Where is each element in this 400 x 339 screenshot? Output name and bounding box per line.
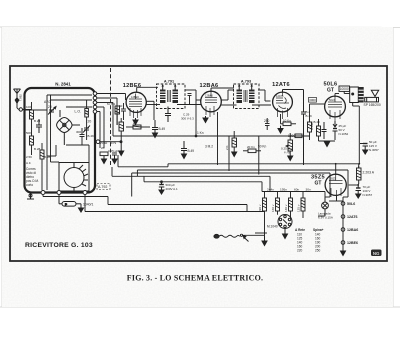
screen cap C.29 bbox=[165, 107, 171, 123]
AVC cap B.49 bbox=[181, 141, 187, 154]
oscillator coil box bbox=[59, 163, 89, 192]
svg-text:N.1052: N.1052 bbox=[339, 132, 349, 136]
50L6 cathode resistor bbox=[317, 119, 321, 141]
svg-text:M.751: M.751 bbox=[107, 102, 116, 106]
svg-text:corto: corto bbox=[26, 183, 33, 187]
svg-text:N. 2841: N. 2841 bbox=[55, 82, 71, 87]
wire screen bus bbox=[137, 170, 348, 176]
tube V1 12BE6 bbox=[123, 83, 147, 118]
wire cathode return bus bbox=[112, 167, 270, 192]
filter cap 50uF bbox=[360, 144, 368, 151]
section divider dash line bbox=[110, 68, 112, 167]
IFT lower connection wires bbox=[146, 104, 271, 107]
resistor in box lower bbox=[30, 128, 34, 155]
svg-text:50K: 50K bbox=[26, 131, 31, 135]
svg-text:B.28: B.28 bbox=[34, 119, 41, 123]
svg-text:30n: 30n bbox=[306, 187, 311, 191]
svg-text:2.5K: 2.5K bbox=[26, 155, 32, 159]
terminal circle phono input bbox=[96, 140, 100, 144]
svg-text:B/79: B/79 bbox=[110, 141, 117, 145]
grid cap 12BA6 bbox=[188, 94, 192, 105]
svg-text:B.49: B.49 bbox=[188, 149, 195, 153]
svg-text:12BE6: 12BE6 bbox=[347, 241, 358, 245]
heater chain bus bbox=[341, 197, 345, 251]
wire terminals to V1 grid bbox=[97, 94, 126, 149]
arrow on selector bbox=[243, 235, 249, 241]
voltage table bbox=[295, 228, 324, 253]
junction node B+ bbox=[358, 163, 360, 165]
svg-text:50L6: 50L6 bbox=[329, 98, 335, 102]
resistor mid column bbox=[40, 143, 44, 165]
IF transformer T2 A.793 bbox=[234, 80, 260, 109]
tube V2 12BA6 bbox=[200, 83, 222, 117]
right column trimmer bbox=[83, 126, 90, 141]
svg-text:B.49: B.49 bbox=[159, 127, 166, 131]
NG stamp bbox=[371, 250, 382, 257]
svg-text:¼ W: ¼ W bbox=[284, 151, 290, 155]
schematic frame (border of schematic) bbox=[10, 66, 387, 261]
ballast M.1040 bbox=[278, 215, 292, 229]
decoupling cap B.49 under IFT1 bbox=[152, 120, 158, 133]
primary impedance label 10000 bbox=[339, 86, 350, 91]
svg-text:50L6: 50L6 bbox=[347, 202, 355, 206]
svg-text:T.992: T.992 bbox=[19, 94, 23, 101]
svg-text:125 v: 125 v bbox=[297, 204, 301, 212]
svg-text:0.05 µF: 0.05 µF bbox=[108, 149, 118, 153]
right column resistor in box bbox=[85, 100, 89, 128]
svg-text:10 Kn: 10 Kn bbox=[283, 118, 291, 122]
svg-text:SP 165/200: SP 165/200 bbox=[364, 103, 381, 107]
heater labels bbox=[347, 202, 358, 245]
svg-text:100: 100 bbox=[26, 105, 31, 109]
svg-text:10000: 10000 bbox=[340, 87, 349, 91]
svg-text:195n: 195n bbox=[280, 187, 287, 191]
svg-text:FIG. 3. - LO SCHEMA ELETTRICO.: FIG. 3. - LO SCHEMA ELETTRICO. bbox=[127, 274, 263, 283]
filter cap 500uF mid bbox=[159, 182, 165, 190]
cathode components small bbox=[100, 152, 117, 156]
svg-text:50: 50 bbox=[119, 104, 123, 108]
tap resistor network bbox=[262, 192, 325, 236]
svg-text:A.792: A.792 bbox=[98, 185, 107, 189]
svg-text:200V A.1: 200V A.1 bbox=[166, 187, 179, 191]
trimmer cap symbol bbox=[48, 107, 56, 115]
svg-text:700Ω: 700Ω bbox=[100, 141, 108, 145]
V1 side wires bbox=[147, 101, 154, 120]
capacitor pair in box bbox=[36, 119, 42, 133]
svg-text:B.49: B.49 bbox=[306, 114, 313, 118]
IF transformer T1 A.791 bbox=[157, 80, 186, 109]
svg-text:A Rete: A Rete bbox=[295, 228, 305, 232]
svg-text:N.3057: N.3057 bbox=[363, 193, 373, 197]
plate wire V2 top to IFT2 bbox=[211, 88, 234, 91]
cap 300 B.49 in box bbox=[80, 128, 85, 145]
svg-text:140 v: 140 v bbox=[284, 204, 288, 212]
wire B+ plate bus bbox=[118, 155, 359, 167]
svg-text:1 Kn: 1 Kn bbox=[197, 131, 204, 135]
svg-text:12BA6: 12BA6 bbox=[347, 228, 358, 232]
resistor 1040/1 pill bbox=[59, 195, 81, 207]
tuning capacitor (variable) bbox=[57, 110, 80, 145]
wires inside box bbox=[25, 95, 93, 190]
components under V2: cathode R/C bbox=[232, 131, 237, 152]
svg-text:NG: NG bbox=[373, 251, 380, 256]
svg-text:B.49: B.49 bbox=[88, 134, 95, 138]
svg-text:RICEVITORE G. 103: RICEVITORE G. 103 bbox=[25, 242, 93, 249]
AVC line bbox=[113, 100, 310, 137]
50L6 cathode cap bbox=[322, 122, 327, 139]
tube V5 35Z5 GT bbox=[311, 174, 346, 199]
svg-text:160 v: 160 v bbox=[271, 204, 275, 212]
svg-text:B.49: B.49 bbox=[314, 120, 321, 124]
terminals on box bottom edge bbox=[41, 191, 87, 195]
rotated tap voltage labels bbox=[258, 204, 301, 212]
svg-text:250: 250 bbox=[315, 249, 321, 253]
capacitor 250 under IFT2 bbox=[265, 118, 270, 130]
ground under 50L6 cathode bbox=[319, 141, 336, 147]
plate stub 50L6 to transformer bbox=[335, 91, 350, 96]
svg-text:GT: GT bbox=[327, 88, 334, 94]
mains plug and selector bbox=[214, 234, 265, 238]
svg-text:3000: 3000 bbox=[309, 98, 316, 102]
wire mains return bbox=[85, 195, 265, 212]
shield box N.2841 bbox=[25, 88, 96, 193]
terminal strip circles on box right edge bbox=[93, 92, 97, 114]
resistor 20 Kn near selector feed bbox=[243, 149, 261, 153]
ground below box left bbox=[27, 193, 34, 200]
svg-text:300: 300 bbox=[76, 130, 81, 134]
wire B- bus bbox=[144, 176, 262, 191]
comm text block bbox=[26, 167, 39, 187]
resistor R in box (left column) bbox=[30, 102, 34, 128]
screen resistor under V1 bbox=[126, 125, 150, 129]
svg-text:300 V 6.3: 300 V 6.3 bbox=[181, 117, 194, 121]
cathode cluster labels bbox=[100, 141, 118, 153]
oscillator coil bbox=[64, 163, 88, 192]
svg-text:M.1040: M.1040 bbox=[267, 225, 278, 229]
svg-text:12AT6: 12AT6 bbox=[272, 82, 290, 88]
resistor below V1 bbox=[119, 118, 124, 140]
V2 plate to IFT2 bbox=[221, 90, 234, 100]
electrolytic 25uF bbox=[333, 121, 338, 140]
svg-text:12BE6: 12BE6 bbox=[123, 83, 142, 89]
pilot lamp bbox=[322, 197, 329, 211]
IFT2 to V3 bbox=[258, 90, 271, 101]
svg-text:2K: 2K bbox=[101, 146, 105, 150]
svg-text:3 M.2: 3 M.2 bbox=[205, 145, 213, 149]
junction node 35Z5 plate bbox=[335, 163, 337, 165]
coupling cap V3 to 50L6 bbox=[283, 90, 307, 166]
50L6 grid wire bbox=[310, 104, 325, 114]
ground arrow under V2 bbox=[203, 116, 208, 123]
wire 35Z5 heater tap bbox=[329, 196, 343, 202]
volume pot vertical bbox=[218, 112, 259, 175]
wire heater bus bbox=[132, 173, 330, 197]
svg-text:A.791: A.791 bbox=[164, 80, 174, 84]
svg-text:12BA6: 12BA6 bbox=[205, 94, 213, 98]
svg-text:12AT6: 12AT6 bbox=[276, 94, 284, 98]
ground under 1040/1 bbox=[79, 204, 84, 212]
wire phono to cluster bbox=[100, 141, 122, 143]
volume control cluster right of V3 bbox=[286, 133, 293, 156]
components left of V1 (osc grid R/C) bbox=[115, 103, 126, 125]
wire pilot lamp feed bbox=[318, 173, 330, 216]
svg-text:2.203 A: 2.203 A bbox=[363, 171, 375, 175]
svg-text:220: 220 bbox=[297, 249, 303, 253]
svg-text:A.F.: A.F. bbox=[26, 161, 31, 165]
svg-text:12BE6: 12BE6 bbox=[131, 95, 139, 99]
ground under selector junction bbox=[262, 235, 267, 245]
svg-text:2 K: 2 K bbox=[225, 145, 229, 150]
speaker bbox=[365, 90, 379, 102]
svg-text:Spina+: Spina+ bbox=[313, 228, 324, 232]
svg-text:60n: 60n bbox=[294, 187, 299, 191]
wire 35Z5 cathode to cap bbox=[349, 184, 359, 185]
small value labels in box bbox=[26, 105, 51, 165]
filter cap 70uF bbox=[356, 184, 362, 194]
plate wire V1 top to IFT1 bbox=[137, 87, 158, 91]
grid resistor 0.5Mn vertical bbox=[308, 114, 312, 140]
output transformer T3 bbox=[350, 87, 364, 103]
B+ vertical from transformer bbox=[353, 103, 360, 164]
heater chain ground arrow bbox=[341, 251, 346, 256]
ground arrow under V1 bbox=[133, 118, 138, 125]
ground under V3 bbox=[278, 126, 283, 133]
ground under it bbox=[119, 140, 124, 156]
svg-text:P: P bbox=[65, 202, 67, 206]
dropper resistor 2.203A bbox=[357, 166, 362, 184]
svg-text:244n: 244n bbox=[267, 187, 274, 191]
parasitic resistor 3000 bbox=[309, 98, 317, 103]
svg-text:20: 20 bbox=[48, 105, 52, 109]
svg-text:220 v: 220 v bbox=[258, 204, 262, 212]
svg-text:12AT6: 12AT6 bbox=[347, 215, 358, 219]
svg-text:20: 20 bbox=[88, 120, 92, 124]
IFT1 to V2 grid wire bbox=[185, 90, 201, 100]
10 Kn resistor under V3 bbox=[281, 114, 297, 126]
svg-text:A.793: A.793 bbox=[241, 80, 251, 84]
svg-text:GT: GT bbox=[315, 181, 322, 187]
tube V4 50L6 GT bbox=[324, 82, 346, 122]
svg-text:B.28: B.28 bbox=[34, 147, 41, 151]
svg-text:35Z5: 35Z5 bbox=[330, 177, 336, 181]
wire heater chain feed bbox=[343, 170, 348, 197]
svg-text:N.3057: N.3057 bbox=[369, 148, 379, 152]
svg-text:50 Kn: 50 Kn bbox=[258, 145, 267, 149]
wire selector to tap bbox=[255, 232, 267, 234]
wire oscillator to chassis bbox=[43, 195, 247, 212]
wire 35Z5 plate bbox=[336, 164, 359, 175]
svg-text:20 Kn: 20 Kn bbox=[247, 145, 255, 149]
ground under ballast bbox=[283, 229, 288, 239]
antenna bbox=[14, 89, 32, 111]
tube V3 12AT6 bbox=[272, 82, 292, 119]
tap value labels bbox=[267, 187, 311, 191]
svg-text:L.O.: L.O. bbox=[75, 110, 81, 114]
